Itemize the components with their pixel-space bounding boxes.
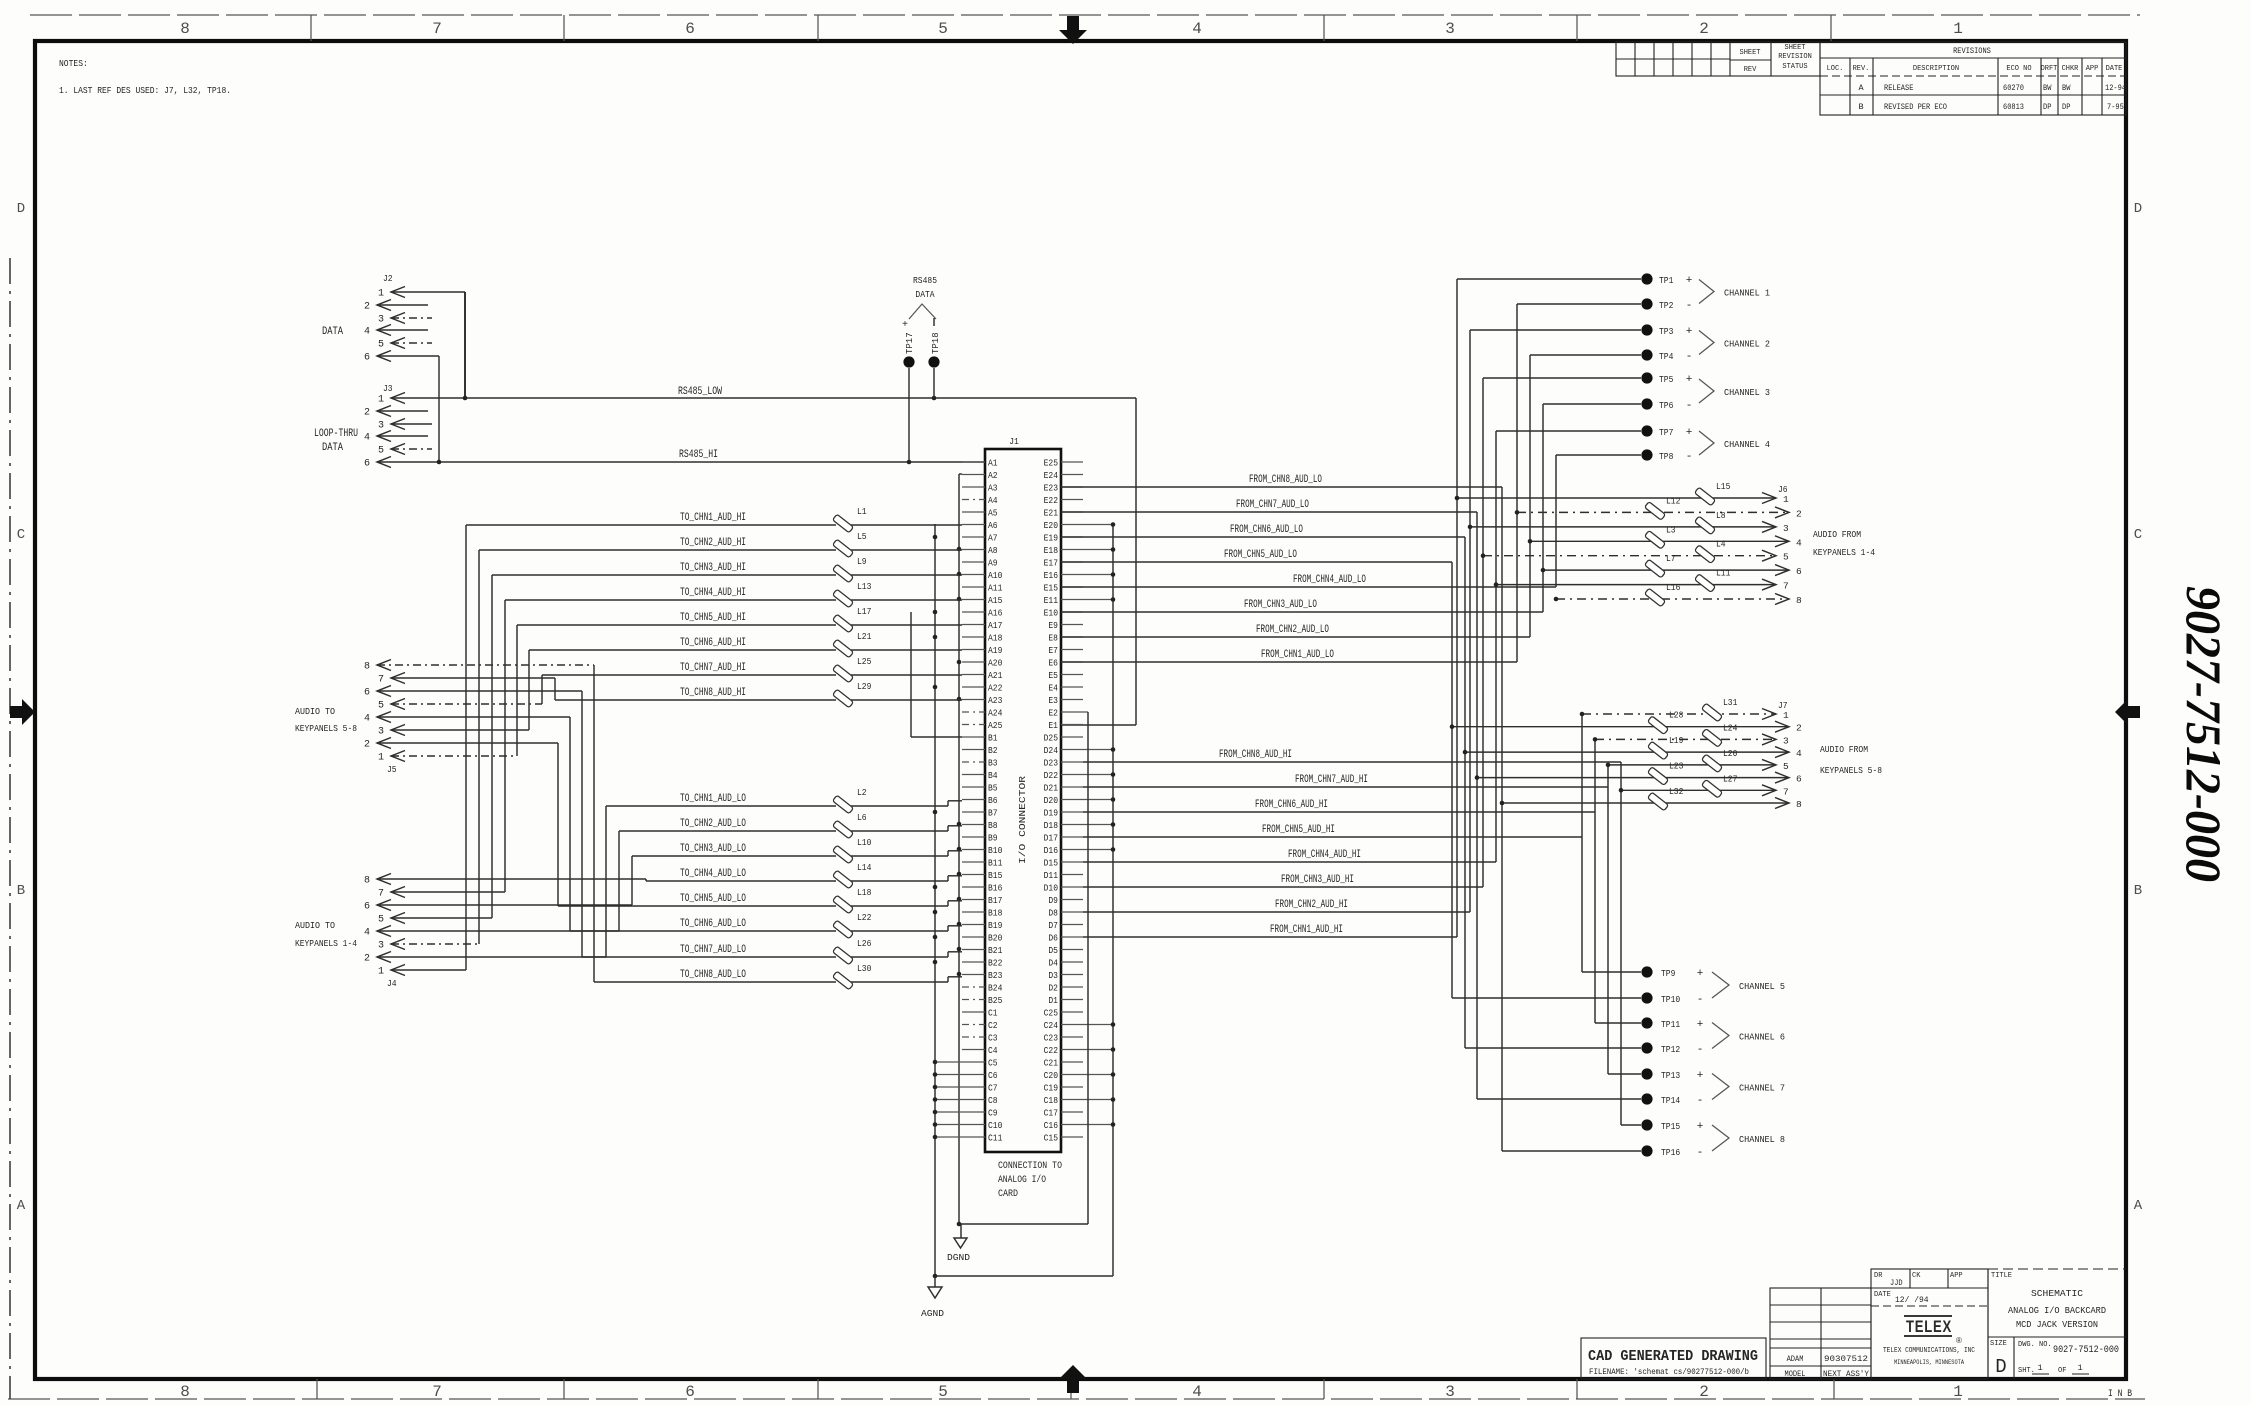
svg-text:L4: L4 xyxy=(1716,539,1726,550)
wire FROM_CHN5_AUD_LO vertical xyxy=(1451,562,1453,998)
svg-text:B21: B21 xyxy=(988,946,1002,956)
wire J7 pin 1 xyxy=(1582,713,1776,715)
svg-text:C5: C5 xyxy=(988,1059,998,1069)
svg-text:KEYPANELS 1-4: KEYPANELS 1-4 xyxy=(295,938,357,949)
net FROM_CHN8_AUD_HI xyxy=(1083,761,1621,763)
svg-text:6: 6 xyxy=(364,902,370,913)
inductor L28 xyxy=(1648,716,1669,735)
svg-text:OF: OF xyxy=(2058,1367,2066,1375)
svg-text:L29: L29 xyxy=(857,681,872,692)
svg-text:A2: A2 xyxy=(988,471,998,481)
inductor L27 xyxy=(1702,779,1723,798)
bus v3 xyxy=(958,474,960,1224)
net TO_CHN7_AUD_HI xyxy=(542,674,836,676)
junction bus v3 xyxy=(957,597,962,602)
net RS485_LOW xyxy=(391,397,1136,399)
net TO_CHN1_AUD_HI xyxy=(466,524,836,526)
svg-text:AUDIO FROM: AUDIO FROM xyxy=(1813,529,1861,540)
wire to TP13 xyxy=(1608,1073,1641,1075)
svg-text:KEYPANELS 1-4: KEYPANELS 1-4 xyxy=(1813,547,1875,558)
wire J7 pin 2 xyxy=(1452,726,1789,728)
wire J7 pin 3 xyxy=(1595,738,1776,740)
svg-text:E11: E11 xyxy=(1044,596,1058,606)
net TO_CHN2_AUD_HI xyxy=(479,549,836,551)
svg-text:L24: L24 xyxy=(1723,722,1738,733)
zone tick bottom xyxy=(563,1379,565,1399)
wire J3-4 xyxy=(377,435,428,437)
svg-text:TO_CHN5_AUD_LO: TO_CHN5_AUD_LO xyxy=(680,893,746,905)
inductor L12 xyxy=(1645,502,1666,521)
wire J6 pin 5 xyxy=(1483,555,1776,557)
svg-text:TP4: TP4 xyxy=(1659,351,1674,362)
svg-text:FROM_CHN7_AUD_HI: FROM_CHN7_AUD_HI xyxy=(1295,774,1368,786)
svg-text:L9: L9 xyxy=(857,556,867,567)
wire J7 pin 7 xyxy=(1621,789,1776,791)
svg-text:TP13: TP13 xyxy=(1661,1070,1680,1081)
wire FROM_CHN7_AUD_HI vertical xyxy=(1607,765,1609,1074)
svg-text:4: 4 xyxy=(364,433,370,444)
svg-text:®: ® xyxy=(1956,1336,1962,1345)
svg-text:L16: L16 xyxy=(1666,582,1681,593)
junction TP18/RS485_LOW xyxy=(932,396,937,401)
svg-text:5: 5 xyxy=(378,340,384,351)
channel 5 bracket xyxy=(1712,972,1729,998)
svg-text:+: + xyxy=(1686,275,1693,287)
svg-text:D8: D8 xyxy=(1048,909,1058,919)
svg-text:C24: C24 xyxy=(1044,1021,1058,1031)
svg-text:E20: E20 xyxy=(1044,521,1058,531)
bus right of J1 xyxy=(1112,524,1114,1276)
svg-text:BW: BW xyxy=(2062,83,2071,93)
svg-text:TP17: TP17 xyxy=(905,332,915,354)
net TO_CHN6_AUD_LO xyxy=(570,930,836,932)
svg-text:D9: D9 xyxy=(1048,896,1058,906)
junction C6 xyxy=(933,1072,938,1077)
junction bus v2 xyxy=(933,910,938,915)
junction bus v3 xyxy=(957,897,962,902)
svg-text:APP: APP xyxy=(2086,65,2099,73)
wire to TP5 xyxy=(1483,377,1641,379)
net TO_CHN3_AUD_LO xyxy=(632,855,836,857)
junction C22 xyxy=(1111,1047,1116,1052)
wire J6 pin 6 xyxy=(1543,569,1789,571)
junction C7 xyxy=(933,1085,938,1090)
wire TO_CHN4_AUD_LO jog xyxy=(947,876,949,881)
svg-text:B: B xyxy=(2134,883,2142,899)
wire J5 pin 6 xyxy=(377,690,582,692)
svg-text:L8: L8 xyxy=(1716,510,1726,521)
svg-text:B11: B11 xyxy=(988,859,1002,869)
net TO_CHN6_AUD_HI xyxy=(529,649,836,651)
junction E20 xyxy=(1111,522,1116,527)
channel 1 bracket xyxy=(1699,280,1714,304)
J7 pin 2 xyxy=(1775,721,1789,732)
wire FROM_CHN2_AUD_HI vertical xyxy=(1469,330,1471,912)
wire J5 pin 2 xyxy=(377,742,558,744)
junction bus v3 xyxy=(957,572,962,577)
svg-text:B9: B9 xyxy=(988,834,998,844)
svg-text:TP14: TP14 xyxy=(1661,1095,1680,1106)
svg-text:RS485_HI: RS485_HI xyxy=(679,449,718,461)
wire FROM_CHN7_AUD_LO vertical xyxy=(1476,512,1478,1099)
svg-text:3: 3 xyxy=(1445,1383,1455,1401)
svg-text:1: 1 xyxy=(378,289,384,300)
svg-text:C10: C10 xyxy=(988,1121,1002,1131)
svg-text:DATA: DATA xyxy=(322,326,343,338)
junction J7 pin 7 xyxy=(1619,788,1624,793)
svg-text:TO_CHN8_AUD_LO: TO_CHN8_AUD_LO xyxy=(680,969,746,981)
svg-text:3: 3 xyxy=(1445,20,1455,38)
wire to TP10 xyxy=(1452,997,1641,999)
svg-text:A: A xyxy=(1858,83,1864,93)
svg-text:TO_CHN6_AUD_HI: TO_CHN6_AUD_HI xyxy=(680,637,746,649)
svg-text:B2: B2 xyxy=(988,746,998,756)
net FROM_CHN7_AUD_HI xyxy=(1083,786,1608,788)
net FROM_CHN3_AUD_HI xyxy=(1083,886,1483,888)
svg-text:D16: D16 xyxy=(1044,846,1058,856)
svg-text:DATA: DATA xyxy=(915,289,934,300)
junction E16 xyxy=(1111,572,1116,577)
bus v1 xyxy=(910,612,912,737)
svg-text:A16: A16 xyxy=(988,609,1002,619)
svg-text:A3: A3 xyxy=(988,484,998,494)
wire to TP4 xyxy=(1530,354,1641,356)
svg-text:A25: A25 xyxy=(988,721,1002,731)
svg-text:RELEASE: RELEASE xyxy=(1884,83,1913,93)
svg-text:L20: L20 xyxy=(1723,748,1738,759)
test point TP1 xyxy=(1641,273,1652,284)
svg-text:A7: A7 xyxy=(988,534,998,544)
wire TO_CHN7_AUD_HI vertical xyxy=(541,675,543,704)
channel 6 bracket xyxy=(1712,1023,1729,1049)
inductor L16 xyxy=(1645,588,1666,607)
svg-text:1: 1 xyxy=(1953,1383,1963,1401)
svg-text:2: 2 xyxy=(364,302,370,313)
svg-text:A15: A15 xyxy=(988,596,1002,606)
border arrow top xyxy=(1059,16,1087,44)
revision status mini table xyxy=(1616,42,1820,76)
svg-text:D25: D25 xyxy=(1044,734,1058,744)
wire TP17 xyxy=(908,368,910,462)
svg-text:TP5: TP5 xyxy=(1659,374,1674,385)
junction bus v3 xyxy=(957,547,962,552)
wire FROM_CHN1_AUD_HI vertical xyxy=(1456,279,1458,937)
J6 pin 4 xyxy=(1775,536,1789,547)
svg-text:8: 8 xyxy=(364,876,370,887)
inductor L6 xyxy=(833,820,854,839)
svg-text:L32: L32 xyxy=(1669,786,1684,797)
wire FROM_CHN3_AUD_HI vertical xyxy=(1482,378,1484,887)
junction D16 xyxy=(1111,847,1116,852)
svg-text:TP7: TP7 xyxy=(1659,427,1673,438)
svg-text:SHEET: SHEET xyxy=(1785,44,1806,52)
zone tick top xyxy=(310,15,312,41)
wire J2-6 xyxy=(377,355,439,357)
net TO_CHN1_AUD_LO xyxy=(606,805,836,807)
test point TP14 xyxy=(1641,1093,1652,1104)
svg-text:C2: C2 xyxy=(988,1021,998,1031)
svg-text:C17: C17 xyxy=(1044,1109,1058,1119)
ground AGND xyxy=(934,1276,936,1287)
net TO_CHN2_AUD_LO xyxy=(619,830,836,832)
zone tick bottom xyxy=(817,1379,819,1399)
wire J7 pin 4 xyxy=(1465,751,1789,753)
wire J5 pin 4 xyxy=(377,716,570,718)
svg-text:D22: D22 xyxy=(1044,771,1058,781)
junction bus v3 xyxy=(957,947,962,952)
channel 3 bracket xyxy=(1699,379,1714,403)
test point TP8 xyxy=(1641,449,1652,460)
wire FROM_CHN5_AUD_HI vertical xyxy=(1581,714,1583,972)
svg-text:CK: CK xyxy=(1912,1272,1921,1280)
wire J6 pin 3 xyxy=(1470,526,1776,528)
svg-text:L12: L12 xyxy=(1666,495,1681,506)
test point TP4 xyxy=(1641,349,1652,360)
svg-text:TP11: TP11 xyxy=(1661,1019,1680,1030)
svg-text:SIZE: SIZE xyxy=(1990,1340,2007,1348)
svg-text:FROM_CHN1_AUD_HI: FROM_CHN1_AUD_HI xyxy=(1270,924,1343,936)
svg-text:C18: C18 xyxy=(1044,1096,1058,1106)
junction D24 xyxy=(1111,747,1116,752)
svg-text:A9: A9 xyxy=(988,559,998,569)
zone tick bottom xyxy=(1833,1379,1835,1399)
svg-text:FROM_CHN6_AUD_HI: FROM_CHN6_AUD_HI xyxy=(1255,799,1328,811)
outer dashed frame bottom xyxy=(8,1398,2145,1400)
svg-text:1: 1 xyxy=(1783,494,1789,505)
svg-text:-: - xyxy=(1686,351,1693,363)
svg-text:SHEET: SHEET xyxy=(1740,49,1761,57)
svg-text:A18: A18 xyxy=(988,634,1002,644)
svg-text:C4: C4 xyxy=(988,1046,998,1056)
svg-text:J5: J5 xyxy=(387,764,397,775)
wire J2-1 to RS485_LOW xyxy=(464,292,466,398)
svg-text:CONNECTION TO: CONNECTION TO xyxy=(998,1161,1062,1172)
inductor L1 xyxy=(833,514,854,533)
svg-text:CHANNEL 8: CHANNEL 8 xyxy=(1739,1134,1785,1145)
svg-text:7: 7 xyxy=(432,1383,442,1401)
svg-text:1: 1 xyxy=(2077,1363,2082,1373)
wire J5 pin 7 xyxy=(391,677,555,679)
svg-text:TO_CHN3_AUD_HI: TO_CHN3_AUD_HI xyxy=(680,562,746,574)
wire to TP15 xyxy=(1621,1124,1641,1126)
junction bus v2 xyxy=(933,960,938,965)
net TO_CHN3_AUD_HI xyxy=(492,574,836,576)
svg-text:CHANNEL 1: CHANNEL 1 xyxy=(1724,288,1770,299)
junction bus v3 xyxy=(957,660,962,665)
junction bus v3 xyxy=(957,822,962,827)
svg-text:J2: J2 xyxy=(383,273,393,284)
svg-text:DRFT: DRFT xyxy=(2041,65,2058,73)
wire J4 pin 7 xyxy=(391,891,505,893)
svg-text:B16: B16 xyxy=(988,884,1002,894)
wire TO_CHN2_AUD_LO vertical xyxy=(618,831,620,931)
wire to TP16 xyxy=(1502,1150,1641,1152)
border arrow left xyxy=(10,699,35,725)
svg-text:D24: D24 xyxy=(1044,746,1058,756)
inductor L31 xyxy=(1702,703,1723,722)
svg-text:D18: D18 xyxy=(1044,821,1058,831)
junction bus v3 xyxy=(957,872,962,877)
connector J1 xyxy=(985,449,1061,1152)
svg-text:A17: A17 xyxy=(988,621,1002,631)
wire J2-1 xyxy=(391,291,465,293)
wire to TP3 xyxy=(1470,329,1641,331)
net FROM_CHN4_AUD_HI xyxy=(1083,861,1496,863)
wire TO_CHN4_AUD_HI vertical xyxy=(504,600,506,892)
svg-text:B25: B25 xyxy=(988,996,1002,1006)
svg-text:L30: L30 xyxy=(857,963,872,974)
svg-text:B: B xyxy=(17,883,25,899)
svg-text:C21: C21 xyxy=(1044,1059,1058,1069)
net TO_CHN5_AUD_HI xyxy=(517,624,836,626)
svg-text:6: 6 xyxy=(685,1383,695,1401)
wire FROM_CHN6_AUD_HI vertical xyxy=(1594,739,1596,1023)
svg-text:90307512: 90307512 xyxy=(1824,1354,1868,1364)
svg-text:-: - xyxy=(1697,1095,1704,1107)
svg-text:8: 8 xyxy=(180,1383,190,1401)
title block TITLE section xyxy=(1987,1269,1989,1379)
junction J7 pin 1 xyxy=(1580,712,1585,717)
svg-text:1: 1 xyxy=(1783,710,1789,721)
svg-text:2: 2 xyxy=(364,740,370,751)
svg-text:4: 4 xyxy=(364,928,370,939)
AGND rail xyxy=(935,1275,1113,1277)
net TO_CHN5_AUD_LO xyxy=(558,905,836,907)
junction bus v2 xyxy=(933,610,938,615)
svg-text:-: - xyxy=(1686,451,1693,463)
svg-text:D: D xyxy=(17,201,25,217)
svg-text:7: 7 xyxy=(1783,786,1789,797)
net E2 to DGND rail xyxy=(1083,711,1088,713)
svg-text:L2: L2 xyxy=(857,787,867,798)
J6 pin 3 xyxy=(1762,521,1776,532)
svg-text:4: 4 xyxy=(1796,537,1802,548)
junction C8 xyxy=(933,1097,938,1102)
svg-text:TO_CHN1_AUD_HI: TO_CHN1_AUD_HI xyxy=(680,512,746,524)
svg-text:L23: L23 xyxy=(1669,761,1684,772)
inductor L24 xyxy=(1702,729,1723,748)
svg-text:L5: L5 xyxy=(857,531,867,542)
svg-text:FROM_CHN2_AUD_LO: FROM_CHN2_AUD_LO xyxy=(1256,624,1329,636)
svg-text:D21: D21 xyxy=(1044,784,1058,794)
junction C5 xyxy=(933,1060,938,1065)
svg-text:AUDIO TO: AUDIO TO xyxy=(295,706,335,717)
svg-text:FROM_CHN5_AUD_LO: FROM_CHN5_AUD_LO xyxy=(1224,549,1297,561)
wire TO_CHN8_AUD_LO jog xyxy=(947,977,949,982)
svg-text:FROM_CHN5_AUD_HI: FROM_CHN5_AUD_HI xyxy=(1262,824,1335,836)
svg-text:C: C xyxy=(17,527,25,543)
svg-text:5: 5 xyxy=(378,915,384,926)
test point TP17 xyxy=(903,356,914,367)
wire J4 pin 4 xyxy=(377,930,619,932)
svg-text:A19: A19 xyxy=(988,646,1002,656)
svg-text:B4: B4 xyxy=(988,771,998,781)
wire to TP14 xyxy=(1477,1098,1641,1100)
svg-text:L22: L22 xyxy=(857,912,872,923)
svg-text:5: 5 xyxy=(938,1383,948,1401)
junction bus v3 xyxy=(957,697,962,702)
svg-text:L18: L18 xyxy=(857,887,872,898)
svg-text:TO_CHN2_AUD_HI: TO_CHN2_AUD_HI xyxy=(680,537,746,549)
svg-text:6: 6 xyxy=(1796,774,1802,785)
inductor L20 xyxy=(1702,754,1723,773)
wire TO_CHN1_AUD_LO jog xyxy=(947,801,949,806)
svg-text:D19: D19 xyxy=(1044,809,1058,819)
svg-text:6: 6 xyxy=(364,353,370,364)
zone tick bottom xyxy=(1576,1379,1578,1399)
svg-text:L27: L27 xyxy=(1723,773,1737,784)
svg-text:L14: L14 xyxy=(857,862,872,873)
test point TP18 xyxy=(928,356,939,367)
ground DGND xyxy=(960,1224,962,1238)
svg-text:L15: L15 xyxy=(1716,481,1731,492)
wire TO_CHN2_AUD_HI vertical xyxy=(478,550,480,944)
svg-text:D10: D10 xyxy=(1044,884,1058,894)
svg-text:E17: E17 xyxy=(1044,559,1058,569)
DGND rail xyxy=(959,1223,1088,1225)
svg-text:B: B xyxy=(1858,102,1863,112)
wire to TP8 xyxy=(1556,454,1641,456)
zone tick bottom xyxy=(1070,1379,1072,1399)
junction J2-1/RS485_LOW xyxy=(463,396,468,401)
wire to TP2 xyxy=(1517,303,1641,305)
zone tick top xyxy=(1830,15,1832,41)
svg-text:LOC.: LOC. xyxy=(1827,65,1844,73)
svg-text:60270: 60270 xyxy=(2003,83,2024,93)
wire J5 pin 1 xyxy=(391,755,517,757)
wire to TP12 xyxy=(1465,1047,1641,1049)
svg-text:DR: DR xyxy=(1874,1272,1883,1280)
svg-text:C8: C8 xyxy=(988,1096,998,1106)
wire J7 pin 8 xyxy=(1502,802,1789,804)
inductor L13 xyxy=(833,589,854,608)
wire J5 pin 5 xyxy=(391,703,542,705)
channel 4 bracket xyxy=(1699,431,1714,455)
net RS485_LOW drop to E1 xyxy=(1135,398,1137,725)
wire FROM_CHN8_AUD_LO vertical xyxy=(1501,487,1503,1151)
svg-text:CARD: CARD xyxy=(998,1189,1018,1200)
junction bus v2 xyxy=(933,885,938,890)
CAD generated drawing box xyxy=(1581,1338,1766,1379)
svg-text:-: - xyxy=(1697,1044,1704,1056)
wire J6 pin 2 xyxy=(1517,511,1789,513)
svg-text:C6: C6 xyxy=(988,1071,998,1081)
svg-text:D17: D17 xyxy=(1044,834,1058,844)
svg-text:C15: C15 xyxy=(1044,1134,1058,1144)
svg-text:LOOP-THRU: LOOP-THRU xyxy=(314,428,358,440)
net RS485_HI xyxy=(377,461,985,463)
svg-text:B1: B1 xyxy=(988,734,998,744)
svg-text:REV.: REV. xyxy=(1853,65,1870,73)
J6 pin 1 xyxy=(1762,493,1776,504)
svg-text:D: D xyxy=(1995,1356,2006,1378)
svg-text:+: + xyxy=(1686,326,1693,338)
svg-text:REVISIONS: REVISIONS xyxy=(1953,46,1991,56)
svg-text:C3: C3 xyxy=(988,1034,998,1044)
svg-text:E23: E23 xyxy=(1044,484,1058,494)
inductor L26 xyxy=(833,946,854,965)
junction C9 xyxy=(933,1110,938,1115)
wire J2-5 xyxy=(391,342,432,344)
wire J2-3 xyxy=(391,317,432,319)
wire FROM_CHN4_AUD_HI vertical xyxy=(1495,431,1497,862)
zone tick top xyxy=(563,15,565,41)
net TO_CHN7_AUD_LO xyxy=(582,956,836,958)
svg-text:B24: B24 xyxy=(988,984,1002,994)
svg-text:C7: C7 xyxy=(988,1084,998,1094)
inductor L8 xyxy=(1695,516,1716,535)
svg-text:TO_CHN6_AUD_LO: TO_CHN6_AUD_LO xyxy=(680,918,746,930)
